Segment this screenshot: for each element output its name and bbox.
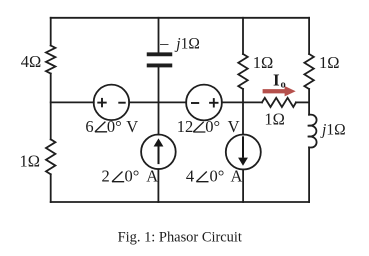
svg-text:0°: 0° — [205, 117, 220, 136]
capacitor C -j1Ω plates — [149, 54, 171, 65]
wire left vertical bottom segment — [50, 174, 52, 202]
wire left vertical middle segment — [50, 74, 52, 140]
voltage source V1 6∠0° V circle — [94, 85, 129, 121]
label 6∠0° V — [85, 117, 138, 136]
svg-text:6: 6 — [85, 117, 93, 136]
wire top rail — [51, 17, 309, 19]
svg-text:4Ω: 4Ω — [21, 52, 42, 71]
svg-text:0°: 0° — [125, 167, 140, 186]
resistor R 1Ω (horizontal, Io branch) — [262, 98, 296, 107]
wire mid rail right end — [296, 101, 309, 103]
voltage source V1 polarity signs — [97, 98, 125, 107]
svg-text:1Ω: 1Ω — [20, 151, 41, 170]
current source I1 arrow (up) — [154, 138, 164, 164]
label 2∠0° A — [102, 167, 159, 186]
wire mid rail V2 to resistor — [222, 101, 262, 103]
svg-text:A: A — [146, 167, 158, 186]
svg-text:0°: 0° — [210, 167, 225, 186]
wire right branch mid to inductor — [308, 89, 310, 115]
label 4∠0° A — [186, 167, 243, 186]
wire capacitor branch below plates to mid rail and I1 — [158, 67, 160, 134]
wire below I2 to bottom rail — [242, 169, 244, 202]
svg-text:V: V — [228, 117, 240, 136]
svg-text:A: A — [231, 167, 243, 186]
wire capacitor branch top — [158, 18, 160, 53]
voltage source V2 polarity signs — [191, 98, 219, 107]
wire bottom rail — [51, 201, 309, 203]
wire mid rail left segment — [51, 101, 94, 103]
current Io red arrow — [263, 86, 296, 96]
resistor R 4Ω (left top) — [46, 46, 55, 74]
resistor R 1Ω (left bottom) — [46, 139, 55, 174]
wire middle branch through mid rail to I2 — [242, 89, 244, 135]
svg-text:j1Ω: j1Ω — [174, 36, 200, 53]
svg-text:I: I — [273, 71, 280, 90]
svg-text:4: 4 — [186, 167, 194, 186]
resistor R 1Ω (right vertical) — [304, 54, 313, 89]
svg-text:V: V — [126, 117, 138, 136]
svg-text:2: 2 — [102, 167, 110, 186]
wire right 1Ω branch top — [308, 18, 310, 54]
svg-text:1Ω: 1Ω — [253, 53, 274, 72]
voltage source V2 12∠0° V circle — [186, 85, 222, 121]
current source I2 arrow (down) — [238, 136, 248, 165]
wire right branch below inductor — [308, 147, 310, 202]
svg-text:1Ω: 1Ω — [319, 53, 340, 72]
svg-text:j1Ω: j1Ω — [320, 122, 346, 139]
inductor L j1Ω coil — [308, 115, 317, 148]
wire below I1 to bottom rail — [157, 169, 159, 202]
current source I2 4∠0° A circle — [226, 135, 261, 170]
wire left vertical top segment — [50, 18, 52, 46]
svg-text:1Ω: 1Ω — [264, 109, 285, 128]
svg-text:–: – — [159, 34, 169, 53]
wire middle 1Ω branch top — [242, 18, 244, 54]
label 12∠0° V — [177, 117, 240, 136]
svg-text:o: o — [281, 80, 286, 91]
svg-text:Fig. 1: Phasor Circuit: Fig. 1: Phasor Circuit — [118, 229, 242, 245]
resistor R 1Ω (middle vertical) — [238, 54, 247, 89]
wire mid rail between V1 and V2 — [129, 101, 186, 103]
current source I1 2∠0° A circle — [141, 135, 176, 170]
svg-text:12: 12 — [177, 117, 194, 136]
svg-text:0°: 0° — [107, 117, 122, 136]
